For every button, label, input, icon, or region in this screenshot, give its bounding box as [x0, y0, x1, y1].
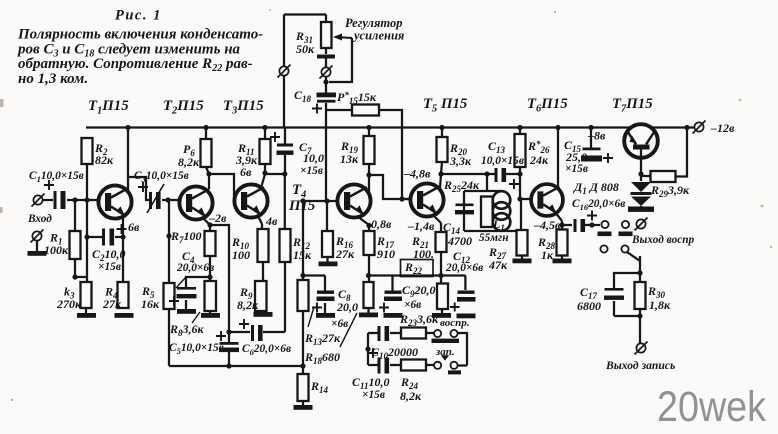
- svg-text:–2в: –2в: [208, 211, 227, 225]
- svg-text:4в: 4в: [265, 214, 278, 228]
- svg-text:×15в: ×15в: [300, 165, 323, 177]
- svg-text:1к: 1к: [541, 248, 554, 262]
- svg-text:R1327к: R1327к: [304, 331, 341, 347]
- svg-text:С510,0×15в: С510,0×15в: [169, 342, 224, 356]
- svg-text:10,0×15в: 10,0×15в: [481, 155, 524, 167]
- svg-text:0,8в: 0,8в: [371, 217, 392, 231]
- svg-text:27к: 27к: [102, 297, 122, 311]
- svg-text:С1620,0×6в: С1620,0×6в: [572, 198, 625, 212]
- svg-text:L1: L1: [492, 217, 505, 233]
- svg-text:но 1,3 ком.: но 1,3 ком.: [18, 71, 88, 87]
- svg-text:П15: П15: [288, 198, 316, 214]
- svg-text:–4,5в: –4,5в: [533, 218, 561, 232]
- svg-text:×6в: ×6в: [404, 299, 421, 311]
- svg-text:–8в: –8в: [587, 129, 606, 143]
- svg-text:270к: 270к: [56, 297, 82, 311]
- svg-text:Вход: Вход: [27, 213, 52, 225]
- svg-text:47к: 47к: [488, 258, 508, 272]
- svg-text:Т1П15: Т1П15: [88, 98, 129, 117]
- svg-text:Д1 Д 808: Д1 Д 808: [573, 180, 619, 196]
- svg-text:25,0: 25,0: [565, 150, 587, 164]
- svg-text:6в: 6в: [240, 165, 252, 179]
- svg-text:3,3к: 3,3к: [449, 154, 472, 168]
- svg-text:Р*1515к: Р*1515к: [337, 90, 377, 106]
- svg-text:×15в: ×15в: [565, 163, 588, 175]
- svg-text:16к: 16к: [141, 297, 160, 311]
- svg-text:–1,4в: –1,4в: [407, 219, 435, 233]
- svg-text:зап.: зап.: [435, 346, 455, 358]
- svg-text:R83,6к: R83,6к: [169, 322, 205, 338]
- svg-text:1,8к: 1,8к: [649, 298, 671, 312]
- svg-text:R2524к: R2524к: [443, 178, 480, 194]
- svg-text:50к: 50к: [296, 42, 315, 56]
- svg-text:100.: 100.: [413, 247, 434, 261]
- svg-text:R233,6к: R233,6к: [399, 312, 439, 328]
- svg-text:24к: 24к: [529, 153, 549, 167]
- svg-text:Т7П15: Т7П15: [612, 96, 653, 115]
- svg-text:Т3П15: Т3П15: [223, 98, 264, 117]
- svg-text:10,0: 10,0: [303, 151, 324, 165]
- svg-text:13к: 13к: [340, 152, 359, 166]
- svg-text:R14: R14: [310, 379, 329, 395]
- svg-text:8,2к: 8,2к: [178, 155, 200, 169]
- svg-text:15к: 15к: [293, 248, 312, 262]
- svg-text:20,0×6в: 20,0×6в: [445, 262, 483, 274]
- svg-text:55мгн: 55мгн: [479, 232, 508, 244]
- svg-text:Рис. 1: Рис. 1: [115, 8, 162, 24]
- svg-text:С1020000: С1020000: [371, 345, 418, 361]
- svg-text:Выход запись: Выход запись: [605, 359, 675, 372]
- svg-text:100к: 100к: [44, 243, 69, 257]
- svg-text:20wek: 20wek: [657, 383, 766, 431]
- svg-text:910: 910: [377, 247, 395, 261]
- svg-text:воспр.: воспр.: [440, 317, 470, 329]
- svg-text:усиления: усиления: [352, 29, 405, 43]
- svg-text:С920,0: С920,0: [402, 283, 436, 299]
- svg-text:Т2П15: Т2П15: [163, 98, 204, 117]
- svg-text:R18680: R18680: [304, 350, 340, 366]
- svg-text:20,0: 20,0: [336, 300, 358, 314]
- svg-text:4700: 4700: [447, 234, 472, 248]
- svg-text:–4,8в: –4,8в: [403, 167, 431, 181]
- svg-text:Т6П15: Т6П15: [527, 96, 568, 115]
- svg-text:20,0×6в: 20,0×6в: [176, 262, 214, 274]
- svg-text:С620,0×6в: С620,0×6в: [242, 343, 291, 357]
- svg-text:6в: 6в: [128, 220, 140, 234]
- svg-text:×6в: ×6в: [331, 318, 348, 330]
- svg-text:8,2к: 8,2к: [237, 298, 259, 312]
- svg-text:–12в: –12в: [710, 121, 735, 135]
- svg-text:R7100: R7100: [170, 229, 202, 245]
- svg-text:Т5 П15: Т5 П15: [423, 96, 468, 115]
- svg-text:×15в: ×15в: [98, 261, 121, 273]
- svg-text:Полярность включения конденсат: Полярность включения конденсато-: [17, 27, 263, 43]
- svg-text:82к: 82к: [95, 153, 114, 167]
- svg-text:С310,0×15в: С310,0×15в: [134, 170, 189, 184]
- svg-text:8,2к: 8,2к: [400, 389, 422, 403]
- svg-text:Выход воспр: Выход воспр: [631, 234, 695, 246]
- svg-text:R293,9к: R293,9к: [650, 183, 690, 199]
- svg-text:С18: С18: [294, 88, 312, 104]
- svg-text:С110,0×15в: С110,0×15в: [29, 170, 84, 184]
- svg-text:27к: 27к: [335, 247, 355, 261]
- svg-text:×15в: ×15в: [362, 389, 385, 401]
- svg-text:100: 100: [232, 248, 250, 262]
- svg-text:R22: R22: [404, 260, 423, 276]
- svg-text:6800: 6800: [577, 299, 601, 313]
- svg-text:С13: С13: [488, 139, 506, 155]
